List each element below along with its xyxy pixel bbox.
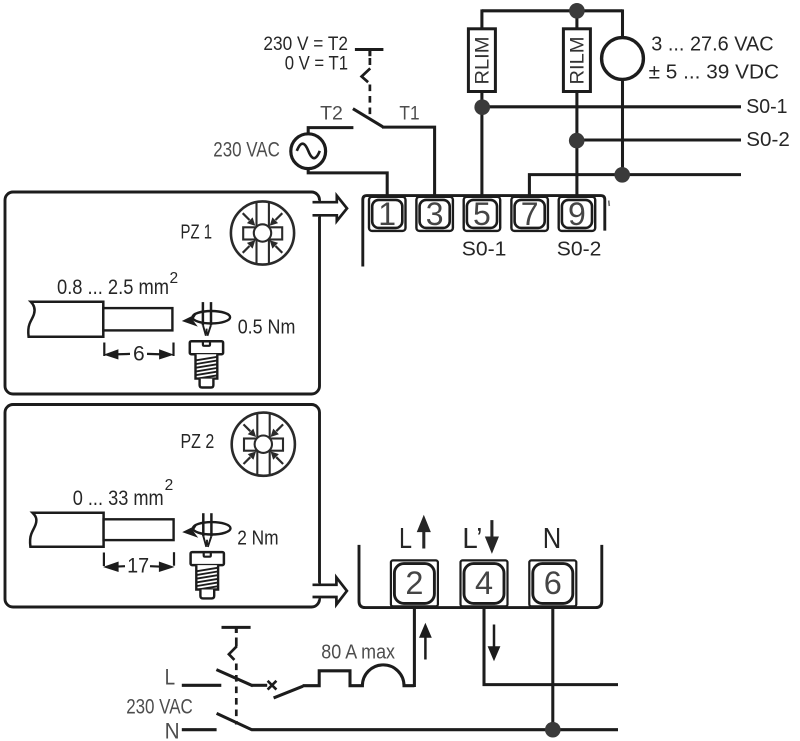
- dimension 17 ticks and arrows: [104, 552, 174, 570]
- svg-text:7: 7: [521, 196, 539, 232]
- svg-text:PZ 1: PZ 1: [181, 220, 213, 243]
- svg-text:PZ 2: PZ 2: [181, 430, 215, 453]
- svg-text:S0-1: S0-1: [462, 238, 507, 261]
- svg-text:0.8 ... 2.5 mm: 0.8 ... 2.5 mm: [57, 276, 169, 299]
- svg-text:L: L: [399, 523, 412, 555]
- arrow down beside terminal 4 wire: [490, 625, 499, 659]
- svg-text:230 VAC: 230 VAC: [126, 696, 193, 719]
- terminal 2: [391, 560, 438, 606]
- pozidriv icon PZ2: [232, 413, 295, 476]
- terminal 1: [369, 196, 406, 232]
- svg-text:2: 2: [165, 477, 174, 494]
- svg-text:N: N: [165, 719, 180, 741]
- arrow down label: [487, 520, 497, 550]
- switch N blade: [217, 713, 252, 729]
- junction dot S0-1: [474, 99, 490, 115]
- svg-text:0 V = T1: 0 V = T1: [285, 54, 348, 75]
- wire L stub: [182, 684, 222, 687]
- svg-text:4: 4: [475, 565, 493, 601]
- screwdriver icon PZ2: [182, 513, 230, 547]
- voltage source circle U1: [602, 38, 644, 80]
- wire RILM bottom to terminal 9: [575, 92, 578, 197]
- svg-text:T1: T1: [399, 102, 419, 124]
- source 230VAC circle with sine: [291, 134, 326, 169]
- junction dot rail3: [614, 167, 630, 183]
- svg-text:RLIM: RLIM: [472, 37, 494, 85]
- svg-text:230 VAC: 230 VAC: [213, 138, 279, 161]
- wire N line bottom: [251, 728, 618, 731]
- junction dot N line: [545, 722, 561, 738]
- svg-text:± 5 ... 39 VDC: ± 5 ... 39 VDC: [649, 62, 779, 84]
- svg-text:17: 17: [127, 554, 149, 577]
- svg-text:S0-1: S0-1: [746, 96, 787, 118]
- wire terminal 4 to L' line: [484, 608, 618, 685]
- wire RILM top stub: [575, 11, 578, 29]
- cable insulation PZ1: [28, 302, 103, 337]
- svg-text:L: L: [165, 665, 176, 690]
- screw icon PZ1: [190, 341, 223, 387]
- svg-text:3 ... 27.6 VAC: 3 ... 27.6 VAC: [651, 34, 773, 56]
- dashed linkage lower: [229, 638, 237, 725]
- resistor RLIM: [468, 29, 495, 92]
- svg-text:S0-2: S0-2: [746, 129, 790, 151]
- svg-text:1: 1: [378, 196, 396, 232]
- wire source to T2 contact: [308, 128, 353, 136]
- dashed linkage upper: [362, 58, 371, 115]
- arrow up beside terminal 2 wire: [421, 626, 430, 660]
- cable insulation PZ2: [30, 513, 104, 547]
- switch L blade: [216, 670, 252, 686]
- wire terminal 7 rail: [529, 175, 741, 197]
- switch T2-T1 blade: [353, 109, 383, 127]
- T-bar upper linkage anchor: [355, 50, 384, 57]
- PZ2 info box: [5, 405, 320, 608]
- screwdriver icon PZ1: [182, 302, 230, 336]
- svg-text:L’: L’: [462, 523, 482, 555]
- wire terminal 6 riser: [551, 608, 554, 730]
- wire RLIM bottom to terminal 5: [480, 92, 483, 197]
- wire N stub: [182, 728, 217, 731]
- svg-text:230 V = T2: 230 V = T2: [263, 34, 348, 55]
- dimension 6 ticks and arrows: [104, 343, 173, 359]
- svg-text:2: 2: [405, 565, 423, 601]
- terminal 7: [511, 196, 548, 232]
- terminal 9: [559, 196, 596, 232]
- wire RLIM top stub: [480, 9, 483, 28]
- T-bar lower linkage anchor: [222, 627, 251, 633]
- wire source top stub: [621, 9, 624, 38]
- relay blade: [274, 686, 303, 698]
- svg-text:3: 3: [426, 196, 444, 232]
- terminal 5: [464, 196, 501, 232]
- wire terminal 2 riser: [413, 608, 416, 687]
- svg-text:80 A max: 80 A max: [321, 642, 395, 664]
- svg-text:6: 6: [133, 342, 145, 365]
- junction dot top rail: [569, 3, 585, 19]
- svg-text:RILM: RILM: [567, 37, 589, 85]
- svg-text:2 Nm: 2 Nm: [237, 526, 278, 549]
- resistor RILM: [563, 29, 590, 92]
- screw icon PZ2: [191, 552, 224, 598]
- terminal strip upper housing: [363, 196, 605, 267]
- cable conductor PZ1: [103, 308, 172, 330]
- svg-text:6: 6: [544, 565, 562, 601]
- wire source bottom stub: [621, 79, 624, 174]
- PZ1 info box: [5, 192, 320, 394]
- terminal 4: [461, 560, 508, 606]
- breaker 80A path: [303, 665, 415, 686]
- svg-text:T2: T2: [320, 102, 343, 124]
- svg-text:2: 2: [170, 270, 179, 287]
- block arrow PZ1 to terminals: [311, 196, 347, 221]
- pozidriv icon PZ1: [231, 201, 294, 264]
- terminal strip lower housing: [359, 545, 602, 608]
- stray tick mark: [608, 201, 611, 207]
- svg-text:5: 5: [473, 196, 491, 232]
- terminal 6: [529, 560, 576, 606]
- svg-text:0 ... 33 mm: 0 ... 33 mm: [73, 487, 164, 510]
- svg-text:N: N: [543, 523, 562, 555]
- svg-text:S0-2: S0-2: [557, 238, 602, 261]
- wire source bottom to terminal 1: [308, 169, 387, 197]
- terminal 3: [416, 196, 453, 232]
- wire S0-1 rail: [482, 105, 741, 108]
- cable conductor PZ2: [104, 519, 174, 540]
- arrow up label: [419, 519, 429, 549]
- junction dot S0-2: [569, 133, 585, 149]
- svg-text:0.5 Nm: 0.5 Nm: [238, 315, 296, 338]
- wire S0-2 rail: [577, 138, 741, 141]
- block arrow PZ2 to terminals: [311, 577, 347, 604]
- wire T1 to terminal 3: [382, 127, 435, 196]
- x contact mark: [268, 681, 277, 690]
- svg-text:9: 9: [568, 196, 586, 232]
- wire after L blade: [252, 684, 267, 687]
- wire top rail RLIM-RILM-source: [482, 9, 623, 12]
